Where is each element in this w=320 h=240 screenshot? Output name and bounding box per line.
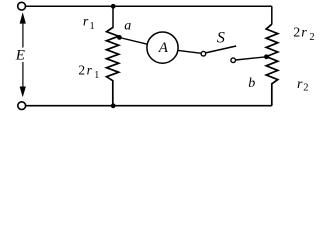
wire bottom	[26, 105, 272, 107]
svg-text:E: E	[15, 47, 25, 63]
potentiometer r2 zigzag	[266, 24, 278, 106]
wire wiper a to ammeter	[119, 38, 147, 45]
wire right branch (top segment)	[271, 6, 273, 24]
svg-text:a: a	[124, 19, 131, 34]
wire switch throw to tap b	[236, 57, 267, 60]
source E double-headed arrow	[20, 12, 26, 97]
svg-text:b: b	[248, 76, 255, 91]
wire ammeter to switch pole	[178, 50, 201, 53]
terminal bottom-left	[18, 102, 26, 110]
svg-text:A: A	[158, 40, 169, 56]
ammeter A (circle)	[147, 32, 178, 63]
svg-text:S: S	[217, 29, 225, 46]
wiper tap dot a	[117, 35, 122, 40]
junction dot top of left branch	[111, 4, 116, 9]
switch S blade (open)	[206, 46, 237, 53]
terminal top-left	[18, 2, 26, 10]
switch S pole contact (open circle)	[201, 51, 206, 56]
wire left branch (top segment)	[112, 6, 114, 28]
switch S throw contact (open circle)	[231, 58, 236, 63]
junction dot bottom of left branch	[111, 103, 116, 108]
wire top	[26, 5, 272, 7]
label E	[14, 47, 26, 63]
tap dot b on r2	[264, 54, 269, 59]
potentiometer r1 zigzag	[107, 28, 119, 106]
